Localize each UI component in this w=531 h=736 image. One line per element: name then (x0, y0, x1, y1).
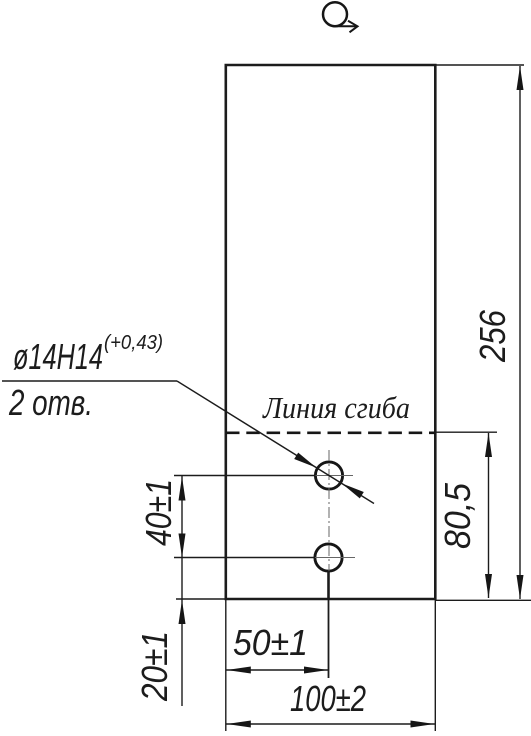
svg-text:20±1: 20±1 (134, 631, 175, 702)
svg-text:256: 256 (472, 309, 513, 363)
svg-text:(+0,43): (+0,43) (104, 332, 163, 354)
svg-text:80,5: 80,5 (437, 482, 478, 549)
svg-text:ø14H14: ø14H14 (13, 336, 103, 377)
svg-text:Линия сгиба: Линия сгиба (262, 390, 410, 425)
svg-text:2 отв.: 2 отв. (8, 382, 93, 423)
svg-text:100±2: 100±2 (290, 678, 366, 719)
svg-text:40±1: 40±1 (138, 479, 179, 546)
svg-text:50±1: 50±1 (233, 622, 308, 663)
